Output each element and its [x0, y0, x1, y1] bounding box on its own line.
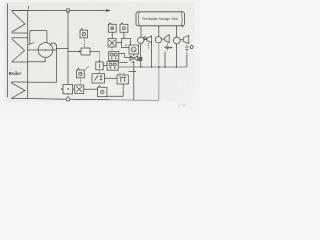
coil sigma1 superheater — [12, 11, 28, 34]
arrowhead into valve box — [79, 50, 82, 52]
wire: bottom feedwater line right faded segment — [110, 99, 159, 102]
elbow drum to downcomer — [50, 43, 56, 45]
scan grain — [0, 0, 1, 1]
tank end caps — [138, 12, 182, 26]
box B4 — [107, 73, 128, 96]
wire: X2 to TB5 — [84, 88, 98, 90]
governor stub 1 — [147, 43, 149, 49]
steam arrow to turbine — [165, 47, 171, 49]
wire: inlet to summer — [61, 88, 63, 90]
wire: valve out line — [90, 51, 100, 53]
box B3 — [92, 74, 117, 83]
pump P-1 — [138, 37, 144, 43]
wire: B4 down to TB5 — [107, 84, 123, 96]
wire: pump1 down — [140, 44, 142, 68]
drum circle — [38, 43, 53, 58]
wire: P2 to valve actuator — [118, 61, 127, 63]
wire: left boundary vertical — [7, 4, 9, 97]
pump P-3 — [173, 37, 180, 44]
small hand valve marks — [138, 57, 142, 61]
instrument TB5 — [98, 86, 107, 97]
scan background — [0, 0, 200, 114]
node: steam line junction — [66, 9, 70, 13]
control valve bowtie — [130, 56, 138, 61]
instrument IB3 — [120, 23, 128, 39]
turbine T-2 — [165, 35, 170, 43]
small circle right of t3 — [190, 46, 193, 49]
wire: P1 to valve FT box — [119, 54, 133, 58]
wire: boiler right vertical — [27, 11, 29, 99]
multiplier X2 — [73, 85, 98, 94]
governor stub 3 — [186, 45, 188, 53]
wire: downcomer — [28, 45, 57, 82]
turbine T-1 — [147, 36, 152, 43]
governor stub 2 — [166, 44, 168, 52]
coil sigma2 reheater — [12, 38, 28, 62]
arrowhead steam to turbine — [170, 47, 173, 49]
wire: drop 1 — [140, 26, 142, 38]
label tick — [28, 7, 30, 10]
wire: actuator link to valve stem — [132, 61, 134, 63]
arrowhead steam line — [106, 9, 111, 12]
valve box VB1 — [81, 48, 90, 55]
multiplier X1 — [108, 39, 116, 52]
wire: drop 2 — [158, 26, 160, 37]
pair box P2 — [107, 62, 118, 71]
wire: signal drop to summer S1 — [99, 52, 101, 63]
turbine1 exhaust — [151, 43, 153, 67]
wire: valve stem — [133, 54, 135, 56]
wire: summer to X2 link — [73, 88, 75, 90]
junction dots on manifold — [140, 66, 177, 68]
wire: B3 to B4 link — [105, 77, 118, 79]
wire: main steam line — [12, 10, 107, 12]
node: S1 inlet dot — [99, 60, 101, 62]
wire: short line under cluster — [128, 71, 136, 73]
wire: drum steam branch — [56, 47, 68, 49]
coil sigma3 evaporator — [12, 82, 28, 98]
turbine2 exhaust — [164, 52, 166, 68]
wire: pump2 to turbine link — [162, 38, 165, 40]
link X1 to BX2 — [116, 42, 122, 44]
pump P-2 — [155, 37, 161, 43]
wire: S1 to P2 — [103, 65, 107, 67]
hood lower diagonal — [28, 43, 34, 45]
instrument IB4 — [77, 66, 90, 84]
pump discharge piping — [118, 43, 193, 101]
tank drop lines + pumps — [138, 26, 189, 44]
node: drum center dot — [45, 49, 47, 51]
control lines to valve — [118, 54, 142, 72]
arrowhead into summer — [62, 88, 64, 90]
summer SIGMA box — [61, 84, 73, 97]
box BX2 — [122, 39, 131, 48]
wire: vertical from steam junction — [67, 11, 69, 84]
wire: drum bottom downfeed — [28, 57, 46, 61]
FT box on pump1 line — [129, 45, 139, 54]
drum hood — [30, 30, 47, 43]
instrument IB1 — [80, 29, 88, 48]
wire: pump2 down long — [158, 43, 160, 100]
instrument IB2 — [108, 23, 116, 39]
wire: pump1 to turbine link — [144, 39, 147, 41]
wire: pump3 down — [176, 44, 178, 67]
wire: valve feed line — [68, 51, 80, 53]
pair box P1 — [109, 52, 119, 61]
summer S1 — [96, 62, 107, 74]
wire: valve line down to feed pipe — [133, 61, 135, 101]
feedwater tank — [136, 12, 185, 26]
wire: drum water level line — [28, 49, 56, 51]
wire: line B manifold — [118, 66, 187, 68]
wire: drop 3 — [176, 26, 178, 38]
wire: bottom feedwater line — [12, 98, 111, 100]
tick under tank — [182, 26, 184, 28]
wire: pump3 to turbine link — [180, 39, 183, 41]
node: bottom junction circle — [66, 98, 70, 102]
